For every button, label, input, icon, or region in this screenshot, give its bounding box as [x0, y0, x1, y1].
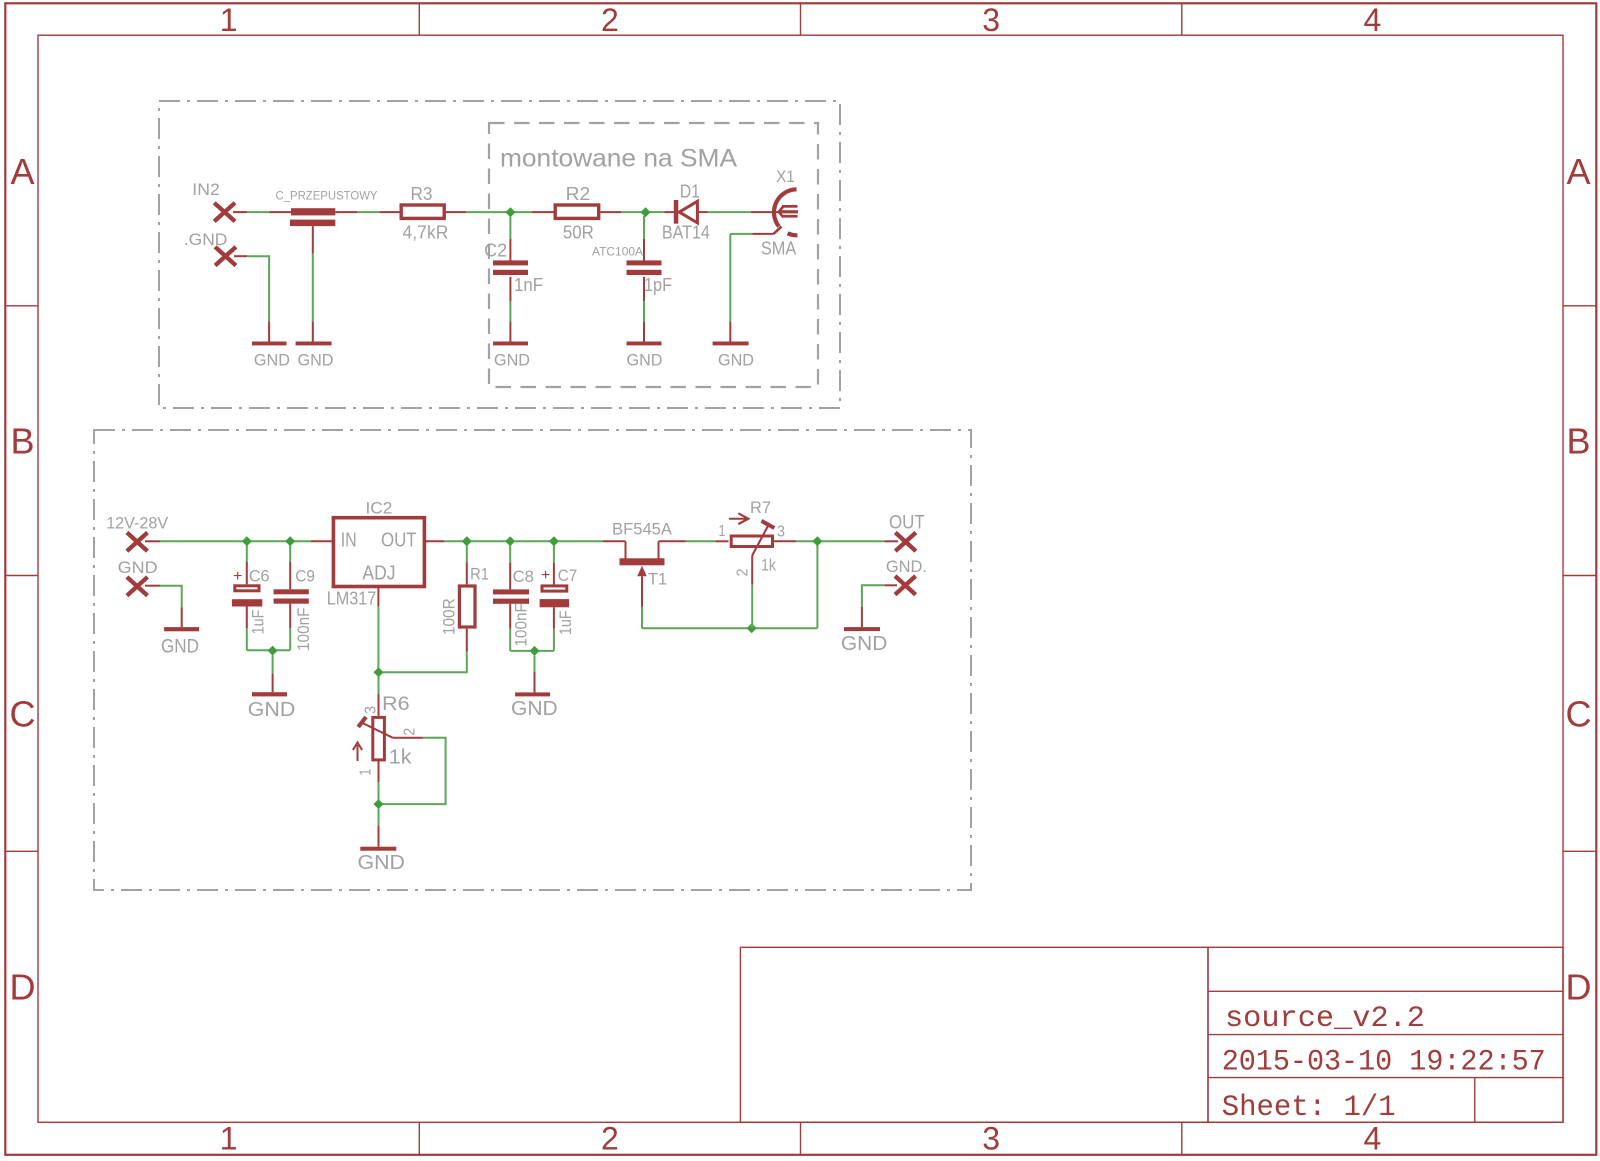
capacitor C1 feedthrough C_PRZEPUSTOWY: [276, 189, 378, 227]
wire C7 bottom: [553, 607, 555, 651]
svg-text:T1: T1: [648, 570, 667, 589]
wire C9 bottom: [289, 604, 291, 651]
wire node D to node E: [514, 540, 554, 542]
wire R6 bottom: [378, 760, 380, 804]
wire C6 bottom: [246, 607, 248, 651]
svg-text:GND: GND: [358, 852, 406, 874]
svg-text:GND: GND: [494, 350, 530, 369]
label 12V-28V: [106, 515, 168, 533]
svg-text:4: 4: [1364, 1121, 1382, 1157]
ground GND under C3: [627, 342, 663, 370]
svg-text:C7: C7: [558, 566, 578, 585]
svg-text:+: +: [541, 567, 550, 584]
label .GND: [184, 230, 228, 249]
ground GND under C8/C7: [511, 692, 558, 720]
svg-text:+: +: [233, 568, 242, 585]
wire C1 to R3: [335, 211, 399, 213]
capacitor C6: [232, 567, 270, 635]
svg-text:4,7kR: 4,7kR: [403, 223, 449, 243]
svg-text:1: 1: [220, 2, 238, 38]
connector X1 SMA: [761, 167, 798, 259]
resistor R1: [440, 564, 489, 635]
wire C6/C9 common: [247, 649, 290, 651]
node OUT (pin X): [895, 533, 916, 552]
svg-text:GND: GND: [161, 636, 199, 657]
MIDDLE CIRCUIT: [94, 430, 971, 890]
junction node D (C8 tap): [505, 536, 515, 546]
wire R1 to ADJ node: [379, 629, 467, 673]
mounting note box (dashed): [489, 123, 818, 387]
ground GND under C6/C9: [248, 692, 295, 721]
svg-text:3: 3: [982, 1121, 1000, 1157]
svg-text:X1: X1: [776, 167, 795, 186]
capacitor C3 ATC100A: [592, 245, 672, 295]
svg-text:GND: GND: [298, 350, 334, 369]
svg-text:1: 1: [719, 523, 726, 540]
wire junction to ground: [534, 656, 536, 693]
svg-text:1k: 1k: [761, 555, 776, 574]
svg-text:50R: 50R: [563, 223, 594, 243]
junction node C: [462, 536, 472, 546]
label GND left: [118, 558, 158, 577]
trimmer R6: [353, 694, 418, 776]
resistor R3: [401, 184, 448, 243]
wire node A to C2: [509, 216, 511, 261]
svg-text:12V-28V: 12V-28V: [106, 515, 168, 533]
svg-text:3: 3: [982, 2, 1000, 38]
wire R6 wiper loop: [379, 738, 446, 804]
svg-text:2: 2: [401, 728, 418, 736]
svg-text:R3: R3: [411, 184, 433, 204]
svg-text:GND.: GND.: [886, 557, 927, 576]
svg-text:IC2: IC2: [366, 499, 393, 518]
ground GND under R6: [358, 847, 406, 874]
svg-text:2015-03-10 19:22:57: 2015-03-10 19:22:57: [1222, 1046, 1546, 1080]
svg-text:R7: R7: [750, 498, 771, 517]
wire junction to ground: [272, 655, 274, 692]
svg-text:D1: D1: [680, 181, 700, 201]
wire R3 to node A: [446, 211, 554, 213]
wire C8 bottom: [509, 604, 511, 651]
svg-text:ADJ: ADJ: [362, 563, 395, 585]
svg-text:100R: 100R: [440, 598, 459, 635]
wire GND. to ground: [862, 585, 897, 627]
wire IC2 ADJ down: [377, 587, 379, 673]
ground GND left of C1: [252, 342, 290, 370]
capacitor C8: [493, 567, 534, 647]
wire ADJ node to R6: [378, 677, 380, 716]
svg-text:C6: C6: [249, 567, 270, 586]
svg-text:100nF: 100nF: [512, 603, 531, 647]
svg-text:2: 2: [601, 2, 619, 38]
node .GND (pin X): [215, 247, 236, 266]
wire C8/C7 common: [510, 650, 554, 652]
capacitor C7: [540, 566, 578, 635]
transistor T1 BF545A: [612, 519, 673, 588]
svg-text:B: B: [1566, 421, 1590, 462]
wire T1 gate down: [641, 576, 643, 628]
wire gate net horizontal: [642, 627, 817, 629]
ground GND under X1: [713, 342, 754, 370]
svg-text:R1: R1: [470, 564, 489, 583]
boundary box top module: [159, 101, 840, 408]
svg-text:source_v2.2: source_v2.2: [1225, 1002, 1425, 1036]
junction node ADJ: [374, 667, 384, 677]
svg-text:2: 2: [735, 568, 752, 576]
svg-text:1pF: 1pF: [644, 275, 672, 295]
svg-text:100nF: 100nF: [294, 608, 313, 652]
svg-text:1: 1: [358, 769, 375, 776]
node IN2 (pin X): [214, 203, 235, 222]
capacitor C9: [274, 567, 315, 652]
TOP CIRCUIT: [159, 101, 840, 408]
node GND left (pin X): [127, 577, 148, 596]
svg-text:OUT: OUT: [381, 530, 417, 552]
wire right riser to rail: [816, 541, 818, 628]
svg-text:IN: IN: [341, 530, 357, 552]
ground GND under C2: [493, 342, 530, 370]
node 12V-28V (pin X): [127, 533, 148, 552]
svg-text:GND: GND: [248, 699, 295, 721]
junction node IN/C6: [242, 536, 252, 546]
wire IC2 OUT to node C: [424, 540, 466, 542]
note text montowane na SMA: [500, 145, 737, 173]
wire node E to T1 drain: [558, 540, 626, 542]
svg-text:SMA: SMA: [761, 239, 796, 259]
svg-text:GND: GND: [511, 698, 558, 720]
junction node B: [641, 207, 651, 217]
svg-text:GND: GND: [841, 633, 888, 655]
svg-text:D: D: [10, 967, 36, 1008]
svg-text:GND: GND: [254, 350, 290, 369]
svg-text:1: 1: [220, 1121, 238, 1157]
junction node C8/C7 gnd: [530, 646, 540, 656]
wire C3 to ground: [643, 277, 645, 342]
svg-text:C: C: [1566, 693, 1592, 734]
svg-text:3: 3: [777, 524, 785, 541]
wire junction to C9: [289, 546, 291, 590]
wire T1 source to R7: [659, 540, 729, 542]
junction node C6/C9 gnd: [268, 646, 278, 656]
wire junction to C6: [246, 546, 248, 585]
wire node B to D1: [650, 211, 674, 213]
wire C1 stem to ground: [312, 226, 314, 341]
svg-text:R2: R2: [566, 184, 591, 204]
wire C2 to ground: [509, 277, 511, 342]
label IN2: [192, 180, 220, 199]
svg-text:BF545A: BF545A: [612, 519, 673, 538]
svg-text:1uF: 1uF: [248, 610, 267, 635]
capacitor C2: [484, 240, 543, 295]
ground GND under C1: [296, 342, 334, 370]
wire node B to C3: [643, 216, 645, 261]
svg-text:4: 4: [1364, 2, 1382, 38]
svg-text:GND: GND: [627, 350, 663, 369]
ground GND far left: [161, 627, 199, 657]
svg-text:3: 3: [363, 706, 380, 714]
svg-text:LM317: LM317: [327, 587, 377, 608]
wire junction to ground: [378, 809, 380, 847]
wire R2 to node B: [600, 211, 646, 213]
svg-text:C2: C2: [484, 240, 507, 260]
svg-text:GND: GND: [118, 558, 158, 577]
svg-text:BAT14: BAT14: [662, 222, 710, 242]
svg-text:A: A: [10, 151, 34, 192]
wire .GND to ground: [234, 255, 269, 341]
svg-text:C8: C8: [513, 567, 534, 586]
wire node D to C8: [509, 546, 511, 590]
junction node IN/C9: [285, 536, 295, 546]
svg-text:2: 2: [601, 1121, 619, 1157]
svg-text:D: D: [1566, 967, 1592, 1008]
svg-text:GND: GND: [718, 350, 754, 369]
svg-text:OUT: OUT: [889, 513, 925, 534]
wire D1 to X1: [697, 211, 780, 213]
svg-text:1uF: 1uF: [556, 610, 575, 635]
wire GND pin to ground: [145, 586, 182, 627]
svg-text:montowane na SMA: montowane na SMA: [500, 145, 737, 173]
wire R7 pin3 to node F: [774, 540, 818, 542]
junction node R6 gnd: [374, 799, 384, 809]
svg-text:ATC100A: ATC100A: [592, 245, 643, 259]
wire X1 shield to ground: [730, 227, 781, 342]
wire node E to C7: [553, 546, 555, 586]
svg-text:C9: C9: [295, 567, 315, 586]
svg-text:IN2: IN2: [192, 180, 220, 199]
svg-text:.GND: .GND: [184, 230, 228, 249]
label GND.: [886, 557, 927, 576]
svg-text:C_PRZEPUSTOWY: C_PRZEPUSTOWY: [276, 189, 378, 203]
svg-text:B: B: [10, 421, 34, 462]
junction node A: [505, 207, 515, 217]
resistor R2: [555, 184, 599, 243]
wire 12V-28V to IC2 IN: [145, 540, 332, 542]
junction node E (C7 tap): [549, 536, 559, 546]
wire node F to OUT: [822, 540, 899, 542]
wire IN2 to C1: [233, 211, 291, 213]
junction node R7 wiper: [747, 623, 757, 633]
node GND. (pin X): [895, 576, 916, 595]
svg-text:Sheet: 1/1: Sheet: 1/1: [1222, 1091, 1396, 1125]
svg-text:1nF: 1nF: [514, 275, 543, 295]
wire node C to R1: [466, 546, 468, 585]
svg-text:A: A: [1566, 151, 1590, 192]
op-amp IC2 LM317: [327, 499, 425, 609]
ground GND right: [841, 627, 888, 655]
label OUT: [889, 513, 925, 534]
boundary box power module: [94, 430, 971, 890]
svg-text:R6: R6: [382, 694, 410, 715]
svg-text:C: C: [10, 693, 36, 734]
wire node C to node D: [471, 540, 510, 542]
junction node F: [812, 536, 822, 546]
wire R7 wiper down: [751, 556, 753, 629]
TITLE BLOCK: [740, 947, 1563, 1125]
trimmer R7: [719, 498, 786, 576]
diode D1 BAT14: [662, 181, 710, 242]
svg-text:1k: 1k: [389, 747, 413, 769]
